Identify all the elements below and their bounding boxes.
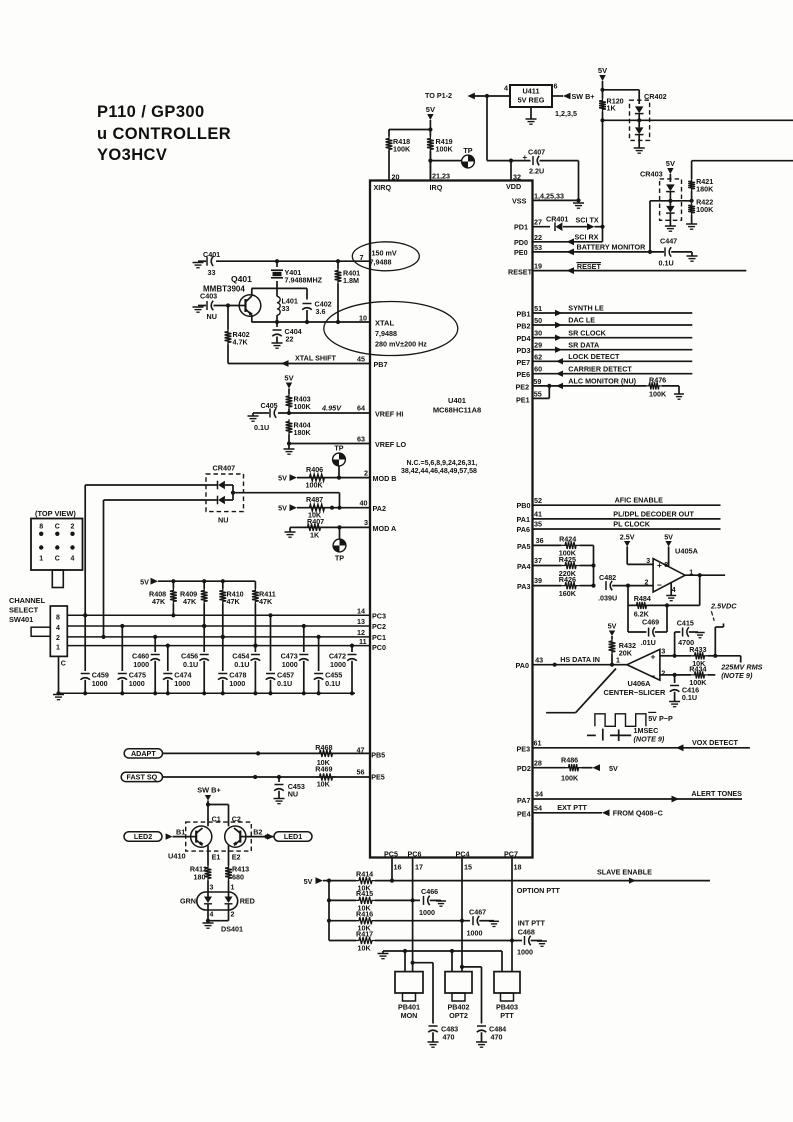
svg-text:TP: TP [463, 146, 472, 155]
svg-text:40: 40 [360, 499, 368, 508]
svg-text:R406: R406 [306, 465, 323, 474]
ground after C467 [489, 921, 499, 927]
svg-text:37: 37 [534, 556, 542, 565]
resistor R414 10K [356, 869, 376, 892]
svg-text:27: 27 [534, 218, 542, 227]
svg-text:C: C [55, 556, 60, 563]
labels C1 C2 [212, 815, 241, 824]
capacitor C460 1000 [132, 635, 160, 693]
pin 37 PA4 / resistor R425 220K [517, 555, 594, 578]
dual diode CR403 dashed box [640, 170, 682, 221]
svg-text:RESET: RESET [577, 262, 602, 271]
svg-text:8: 8 [664, 562, 668, 569]
svg-text:1K: 1K [607, 104, 617, 113]
svg-text:.01U: .01U [641, 638, 656, 647]
svg-text:1000: 1000 [517, 947, 533, 956]
bus wire PC0 pin 11 [67, 637, 386, 652]
wire summing node [591, 545, 595, 587]
svg-text:7: 7 [360, 253, 364, 262]
svg-text:100K: 100K [649, 390, 667, 399]
wire SCI vertical [602, 120, 604, 242]
crystal Y401 7.9488MHZ [271, 261, 323, 288]
svg-text:35: 35 [534, 520, 542, 529]
svg-text:47K: 47K [152, 597, 166, 606]
svg-text:20K: 20K [619, 649, 633, 658]
pin 7 annotation oval 150 mV 7,9488 [352, 242, 419, 271]
svg-text:20: 20 [392, 173, 400, 182]
svg-text:56: 56 [357, 768, 365, 777]
ground rail under capacitor bank [56, 691, 355, 695]
svg-text:CR407: CR407 [213, 464, 236, 473]
wire PC6 branch to C483 [413, 963, 433, 1024]
test point TP at MOD B [333, 444, 346, 478]
svg-text:PC2: PC2 [372, 622, 386, 631]
signal SW B+ feed [197, 786, 221, 807]
2.5V reference to op-amp + [620, 532, 653, 564]
capacitor C473 1000 [281, 624, 309, 693]
resistor R487 10K [306, 495, 328, 520]
svg-text:LOCK DETECT: LOCK DETECT [568, 352, 620, 361]
svg-text:5V: 5V [278, 504, 287, 513]
resistor R403 100K [286, 394, 312, 413]
5V supply at R403 [284, 374, 293, 395]
dual LED DS401 body [197, 892, 238, 910]
resistor R409 47K [180, 581, 208, 628]
svg-text:ADAPT: ADAPT [131, 749, 156, 758]
wire DS401 to ground [206, 910, 229, 923]
svg-text:2: 2 [364, 468, 368, 477]
U406 + input wire [660, 654, 677, 658]
svg-text:SLAVE ENABLE: SLAVE ENABLE [597, 868, 652, 877]
pin 63 VREF LO line [287, 434, 407, 449]
svg-text:PA4: PA4 [517, 562, 530, 571]
5V rail for channel pullups [140, 577, 255, 586]
svg-text:100K: 100K [294, 402, 312, 411]
svg-text:XTAL: XTAL [375, 319, 394, 328]
svg-text:15: 15 [464, 862, 472, 871]
pin 17 PC6 wire [411, 858, 415, 972]
svg-text:NU: NU [218, 516, 228, 525]
svg-text:55: 55 [534, 389, 542, 398]
svg-text:R407: R407 [307, 517, 324, 526]
svg-text:160K: 160K [559, 589, 577, 598]
5V supply at CR403 [666, 159, 675, 182]
svg-text:SW B+: SW B+ [572, 92, 595, 101]
svg-text:PC5: PC5 [384, 849, 398, 858]
svg-text:PB7: PB7 [374, 360, 388, 369]
pin 19 RESET / signal RESET line [508, 262, 746, 277]
U405 pin 4 ground [666, 583, 676, 601]
svg-text:SR DATA: SR DATA [568, 340, 599, 349]
annotation 5V P-P [648, 712, 673, 723]
annotation 2.5VDC with dashed pointer [710, 602, 737, 621]
svg-text:ALERT TONES: ALERT TONES [691, 789, 742, 798]
svg-text:8: 8 [39, 524, 43, 531]
svg-text:PC7: PC7 [504, 849, 518, 858]
pin 27 PD1 [514, 218, 550, 232]
wire tank bottom / pin 10 line [252, 320, 371, 324]
svg-text:100K: 100K [561, 773, 579, 782]
svg-text:33: 33 [208, 268, 216, 277]
svg-text:59: 59 [533, 377, 541, 386]
pin 40 PA2 line [278, 499, 386, 514]
U401 N.C. pins note [401, 460, 477, 475]
svg-text:5V: 5V [140, 577, 149, 586]
ground below R422 [686, 224, 697, 229]
svg-text:11: 11 [359, 637, 367, 646]
ground below DS401 [203, 923, 243, 934]
svg-text:180K: 180K [696, 185, 714, 194]
resistor R415 10K [327, 889, 420, 912]
svg-text:54: 54 [534, 803, 542, 812]
svg-text:PA7: PA7 [517, 796, 530, 805]
label OPTION PTT [517, 886, 561, 895]
svg-text:R476: R476 [649, 375, 666, 384]
svg-text:6: 6 [554, 82, 558, 91]
svg-text:FAST SQ: FAST SQ [126, 773, 157, 782]
U401 name label [433, 396, 481, 415]
SW401 common wire [59, 656, 66, 693]
svg-text:10K: 10K [358, 944, 372, 953]
svg-text:13: 13 [357, 617, 365, 626]
svg-text:PE1: PE1 [516, 396, 530, 405]
svg-text:MON: MON [401, 1011, 418, 1020]
svg-text:4: 4 [504, 84, 508, 93]
svg-text:1: 1 [231, 885, 235, 892]
svg-text:2: 2 [56, 635, 60, 642]
svg-text:PA3: PA3 [517, 582, 530, 591]
ground after C447 [687, 252, 698, 261]
svg-text:OPT2: OPT2 [449, 1011, 468, 1020]
dual diode CR407 dashed box NU [206, 464, 244, 525]
pin 10 XTAL annotation oval [324, 302, 458, 356]
svg-text:u CONTROLLER: u CONTROLLER [97, 125, 231, 143]
svg-text:3.6: 3.6 [316, 307, 326, 316]
svg-text:1,4,25,33: 1,4,25,33 [534, 191, 564, 200]
pin 32 VDD stub [506, 159, 521, 191]
transistor U410-1 B1 [176, 826, 212, 847]
svg-text:C447: C447 [660, 236, 677, 245]
svg-text:C407: C407 [528, 148, 545, 157]
op-amp U406A center slicer [604, 648, 666, 697]
capacitor C467 1000 [467, 908, 495, 938]
ground at C405 [248, 413, 259, 421]
svg-text:TP: TP [335, 554, 344, 563]
svg-text:PTT: PTT [500, 1011, 514, 1020]
svg-text:B1: B1 [176, 827, 185, 836]
svg-text:U405A: U405A [675, 547, 699, 556]
bus wire PC3 pin 14 [67, 607, 386, 621]
resistor R469 10K [315, 764, 336, 788]
svg-text:280 mV±200 Hz: 280 mV±200 Hz [375, 340, 427, 349]
svg-text:NU: NU [207, 312, 217, 321]
svg-text:7.9488MHZ: 7.9488MHZ [285, 276, 323, 285]
svg-text:63: 63 [357, 434, 365, 443]
signal TO P1-2 [425, 91, 510, 100]
pin 39 PA3 / resistor R426 160K [517, 575, 594, 598]
svg-text:100K: 100K [696, 205, 714, 214]
ground below SW401 [53, 695, 64, 700]
bus wire PC1 pin 12 [67, 628, 386, 642]
svg-text:U406A: U406A [628, 679, 652, 688]
svg-text:R469: R469 [315, 764, 332, 773]
svg-text:CR401: CR401 [546, 215, 568, 224]
connector top-view diagram [31, 509, 83, 588]
capacitor C415 4700 [675, 619, 698, 656]
svg-text:.039U: .039U [598, 594, 617, 603]
pin 51 PB1 / signal SYNTH LE [517, 304, 693, 319]
svg-text:PD0: PD0 [514, 238, 528, 247]
svg-text:4: 4 [672, 587, 676, 594]
capacitor C459 1000 [80, 613, 108, 693]
svg-text:1.8M: 1.8M [343, 276, 359, 285]
svg-text:12: 12 [357, 628, 365, 637]
resistor R413 680 [225, 845, 249, 892]
svg-text:PB2: PB2 [517, 322, 531, 331]
svg-text:7,9488: 7,9488 [375, 329, 397, 338]
button rail drops [405, 951, 502, 972]
svg-text:MOD B: MOD B [373, 474, 397, 483]
svg-text:(NOTE 9): (NOTE 9) [634, 734, 665, 743]
svg-text:R484: R484 [634, 594, 651, 603]
capacitor C475 1000 [118, 624, 146, 693]
svg-text:−: − [651, 671, 656, 681]
pin 50 PB2 / signal DAC LE [517, 316, 693, 331]
svg-text:DAC LE: DAC LE [568, 316, 595, 325]
svg-text:0.1U: 0.1U [254, 423, 269, 432]
ground after C466 [436, 900, 446, 906]
ground at C453 [274, 799, 285, 804]
resistor R419 100K [427, 130, 453, 154]
ground at C401 [193, 263, 204, 268]
svg-text:AFIC ENABLE: AFIC ENABLE [615, 496, 664, 505]
capacitor C474 1000 [163, 644, 191, 694]
capacitor C447 0.1U [659, 236, 693, 267]
svg-text:VREF LO: VREF LO [375, 440, 407, 449]
resistor R476 100K [646, 375, 667, 398]
svg-text:SR CLOCK: SR CLOCK [568, 328, 606, 337]
svg-text:2.2U: 2.2U [529, 167, 544, 176]
annotation 225MV RMS (NOTE 9) [720, 662, 762, 680]
capacitor C405 0.1U [253, 401, 278, 432]
svg-text:YO3HCV: YO3HCV [97, 146, 167, 164]
svg-text:PA2: PA2 [373, 504, 386, 513]
U411 ground pins 1,2,3,5 [526, 107, 577, 124]
svg-text:2.5V: 2.5V [620, 532, 635, 541]
DS401 green LED [204, 892, 212, 910]
5V supply at R414 [304, 877, 331, 886]
pushbutton PB401 MON [395, 965, 423, 1020]
svg-text:3: 3 [364, 518, 368, 527]
2.5VDC measurement bracket [715, 624, 723, 656]
wire U411 input down to VDD/C407 [487, 96, 531, 161]
svg-text:(TOP VIEW): (TOP VIEW) [35, 509, 76, 518]
svg-text:ALC MONITOR (NU): ALC MONITOR (NU) [568, 377, 636, 386]
svg-text:150 mV: 150 mV [372, 249, 397, 258]
svg-text:1: 1 [39, 556, 43, 563]
svg-text:PD3: PD3 [517, 346, 531, 355]
svg-text:U401: U401 [448, 396, 466, 405]
svg-text:1000: 1000 [92, 679, 108, 688]
capacitor C453 NU [274, 777, 305, 799]
svg-text:1000: 1000 [129, 679, 145, 688]
annotation timing marks [587, 729, 631, 741]
svg-text:+: + [651, 652, 656, 662]
resistor R401 1.8M [335, 261, 361, 322]
svg-text:5V: 5V [598, 66, 607, 75]
svg-text:1: 1 [616, 657, 620, 664]
svg-text:PE3: PE3 [517, 744, 531, 753]
svg-text:38,42,44,46,48,49,57,58: 38,42,44,46,48,49,57,58 [401, 468, 477, 475]
CR403 lower diode [666, 201, 675, 226]
svg-text:50: 50 [534, 316, 542, 325]
svg-text:NU: NU [288, 790, 298, 799]
ground at C403 [193, 307, 204, 312]
svg-text:2: 2 [231, 912, 235, 919]
svg-text:HS DATA IN: HS DATA IN [560, 655, 600, 664]
wire CR403 mid node [650, 199, 694, 203]
svg-text:10K: 10K [317, 780, 331, 789]
ground after R476 [674, 386, 684, 399]
ground at button rail [378, 954, 389, 959]
svg-text:PC4: PC4 [456, 849, 470, 858]
svg-text:R486: R486 [561, 755, 578, 764]
svg-text:5V: 5V [284, 374, 293, 383]
svg-text:61: 61 [534, 738, 542, 747]
test point TP near IRQ [462, 146, 475, 168]
label INT PTT [518, 919, 546, 928]
svg-text:100K: 100K [306, 481, 324, 490]
svg-text:47K: 47K [227, 597, 241, 606]
capacitor C482 .039U [598, 573, 653, 603]
svg-text:1000: 1000 [467, 929, 483, 938]
svg-text:47: 47 [357, 746, 365, 755]
svg-text:C415: C415 [677, 619, 694, 628]
svg-text:PE6: PE6 [517, 370, 531, 379]
capacitor C478 1000 [218, 635, 246, 693]
svg-text:N.C.=5,6,8,9,24,26,31,: N.C.=5,6,8,9,24,26,31, [407, 460, 478, 467]
svg-text:+: + [523, 153, 528, 162]
IC U401 MC68HC11A8 body [370, 181, 533, 858]
svg-text:1K: 1K [310, 531, 320, 540]
wire R414-R417 left vertical [328, 881, 330, 941]
labels GRN RED [180, 897, 255, 906]
pin 34 PA7 / signal ALERT TONES [517, 789, 742, 805]
resistor R408 47K [149, 581, 177, 617]
svg-text:R415: R415 [356, 889, 373, 898]
svg-text:0.1U: 0.1U [183, 660, 198, 669]
ground at C484 [476, 1042, 487, 1047]
svg-text:16: 16 [394, 862, 402, 871]
svg-text:680: 680 [232, 873, 244, 882]
CR402 lower diode [635, 120, 644, 148]
svg-text:33: 33 [282, 304, 290, 313]
svg-text:XIRQ: XIRQ [374, 183, 392, 192]
pin 64 VREF HI line [278, 404, 403, 419]
capacitor C483 470 [428, 1025, 458, 1043]
svg-text:1000: 1000 [133, 660, 149, 669]
svg-text:C482: C482 [599, 573, 616, 582]
svg-text:60: 60 [534, 365, 542, 374]
svg-text:R426: R426 [559, 575, 576, 584]
svg-text:DS401: DS401 [221, 925, 243, 934]
annotation pointer diagonal [546, 669, 616, 713]
svg-text:5V: 5V [304, 877, 313, 886]
5V to U405 pin 8 [664, 532, 673, 566]
svg-text:R416: R416 [356, 910, 373, 919]
svg-text:PD1: PD1 [514, 223, 528, 232]
capacitor C416 0.1U [670, 675, 699, 702]
CR407 upper diode [206, 481, 233, 490]
bus wire PC2 pin 13 [67, 617, 386, 631]
capacitor C454 0.1U [232, 644, 260, 694]
svg-text:E1: E1 [212, 853, 221, 862]
5V supply for R418/R419 [389, 105, 435, 132]
svg-text:LED1: LED1 [284, 832, 302, 841]
svg-text:0.1U: 0.1U [234, 660, 249, 669]
svg-text:CHANNEL: CHANNEL [9, 596, 46, 605]
pin 16 PC5 stub [391, 858, 393, 881]
svg-text:B2: B2 [253, 827, 262, 836]
svg-text:52: 52 [534, 496, 542, 505]
svg-text:100K: 100K [393, 145, 411, 154]
pin 55 PE1 tie to PE2 [516, 386, 549, 405]
svg-text:RED: RED [240, 897, 255, 906]
svg-text:LED2: LED2 [134, 832, 152, 841]
diode CR401 [546, 215, 588, 232]
svg-text:PD4: PD4 [517, 334, 531, 343]
svg-text:PA5: PA5 [517, 542, 530, 551]
switch SW401 label [9, 596, 46, 624]
pin 47 PB5 [357, 746, 386, 760]
svg-text:(NOTE 9): (NOTE 9) [721, 671, 753, 680]
svg-text:R414: R414 [356, 869, 373, 878]
svg-text:PA0: PA0 [516, 661, 529, 670]
svg-text:EXT PTT: EXT PTT [557, 803, 587, 812]
U405 output [685, 573, 725, 577]
svg-text:MC68HC11A8: MC68HC11A8 [433, 406, 481, 415]
resistor R417 10K [329, 929, 522, 952]
5V supply at R120 [598, 66, 607, 92]
pin 59 PE2 / signal ALC MONITOR (NU) [516, 377, 680, 392]
svg-text:47K: 47K [259, 597, 273, 606]
svg-text:45: 45 [357, 355, 365, 364]
pin 15 PC4 wire [460, 858, 464, 972]
wire PC4 branch to C484 [462, 967, 482, 1024]
title text [97, 103, 231, 164]
regulator U411 5V REG [510, 85, 552, 107]
pushbutton PB403 PTT [494, 972, 520, 1020]
svg-text:R417: R417 [356, 929, 373, 938]
svg-text:PA1: PA1 [517, 515, 530, 524]
svg-text:C467: C467 [469, 908, 486, 917]
pin 28 PD2 / resistor R486 100K to 5V [517, 755, 618, 782]
svg-text:1000: 1000 [419, 908, 435, 917]
svg-text:PC0: PC0 [372, 643, 386, 652]
svg-text:8: 8 [56, 614, 60, 621]
svg-text:R487: R487 [306, 495, 323, 504]
capacitor C401 33 [198, 250, 220, 277]
svg-text:PL/DPL DECODER OUT: PL/DPL DECODER OUT [613, 509, 694, 518]
svg-text:180: 180 [194, 873, 206, 882]
5V at R432 [608, 622, 617, 639]
test point TP at MOD A [333, 527, 346, 562]
svg-text:C466: C466 [421, 887, 438, 896]
svg-text:TO P1-2: TO P1-2 [425, 91, 452, 100]
ground below CR403 [665, 226, 676, 231]
svg-text:0.1U: 0.1U [682, 693, 697, 702]
svg-text:C403: C403 [200, 292, 217, 301]
